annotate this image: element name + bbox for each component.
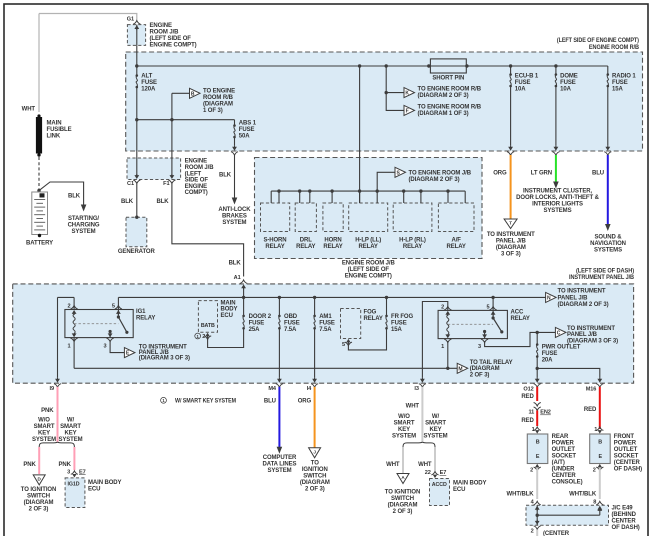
pin 3 IG1 — [107, 338, 114, 342]
svg-text:ENGINE COMPT): ENGINE COMPT) — [150, 43, 197, 49]
svg-text:POWER: POWER — [552, 441, 575, 447]
svg-text:(DIAGRAM 2 OF 3): (DIAGRAM 2 OF 3) — [558, 302, 609, 308]
svg-text:O12: O12 — [523, 387, 533, 393]
svg-text:BATTERY: BATTERY — [26, 241, 53, 247]
svg-text:M: M — [458, 366, 462, 372]
svg-text:BLK: BLK — [219, 173, 232, 179]
pin ECU-B out of R/B — [508, 147, 513, 151]
wire PNK to IG1D — [73, 447, 75, 470]
svg-text:ORG: ORG — [298, 399, 312, 405]
wire ECU-B fuse down — [510, 86, 512, 146]
wire WHT/BLK front — [599, 468, 601, 500]
ENGINE ROOM R/B box — [126, 52, 643, 151]
svg-text:B: B — [536, 440, 540, 446]
svg-text:FUSE: FUSE — [249, 321, 265, 327]
svg-text:BRAKES: BRAKES — [222, 214, 247, 220]
arrow to anti-lock brakes system — [232, 198, 238, 205]
wire ORG from I4 — [314, 387, 316, 448]
svg-text:FUSE: FUSE — [141, 80, 157, 86]
svg-text:SYSTEM: SYSTEM — [71, 229, 95, 235]
fuse ECU-B 1 10A — [509, 64, 512, 67]
engine room J/B label box (C1 F1) — [127, 158, 181, 180]
pin RADIO out of R/B — [605, 147, 610, 151]
svg-text:F: F — [406, 109, 409, 115]
svg-text:A/F: A/F — [452, 237, 462, 243]
wire WHT/BLK rear — [536, 468, 538, 500]
svg-text:1 OF 3): 1 OF 3) — [203, 108, 223, 114]
svg-text:2 OF 3): 2 OF 3) — [470, 373, 490, 379]
svg-text:T: T — [509, 221, 512, 226]
svg-text:(DIAGRAM: (DIAGRAM — [300, 480, 330, 486]
wire PWR fuse to O12 — [536, 357, 538, 378]
svg-text:120A: 120A — [141, 87, 156, 93]
coil ACC — [447, 315, 449, 335]
junction ACC pin5 rail — [491, 296, 494, 299]
circled 1 note smart key — [161, 397, 167, 403]
lower rail to M arrow — [74, 367, 457, 369]
svg-text:TO ENGINE: TO ENGINE — [203, 88, 235, 94]
wire LT GRN to instrument cluster — [555, 155, 557, 182]
wire down to ABS fuse — [234, 120, 236, 126]
svg-text:SYSTEM: SYSTEM — [392, 434, 416, 440]
pin 4 J/C E49 — [534, 501, 541, 505]
svg-text:MAIN: MAIN — [47, 121, 62, 127]
svg-text:7.5A: 7.5A — [284, 327, 297, 333]
svg-text:TO INSTRUMENT: TO INSTRUMENT — [567, 326, 615, 332]
svg-text:(DIAGRAM: (DIAGRAM — [388, 503, 418, 509]
svg-text:(UNDER: (UNDER — [552, 467, 575, 473]
svg-text:FUSE: FUSE — [284, 321, 300, 327]
svg-text:15A: 15A — [612, 87, 623, 93]
wire pin5 up — [117, 297, 119, 309]
arrow to sound and navigation — [605, 224, 611, 231]
svg-text:J/C E49: J/C E49 — [612, 506, 634, 512]
arrow F to engine room R/B — [404, 105, 415, 115]
wire rail to ACC pin5 — [492, 297, 494, 310]
svg-text:TO TAIL RELAY: TO TAIL RELAY — [470, 360, 513, 366]
svg-text:DRL: DRL — [300, 237, 312, 243]
svg-text:FUSE: FUSE — [319, 321, 335, 327]
svg-text:CHARGING: CHARGING — [68, 223, 100, 229]
svg-text:SYSTEM: SYSTEM — [222, 220, 246, 226]
svg-text:BLK: BLK — [68, 194, 81, 200]
svg-text:(DIAGRAM 1 OF 3): (DIAGRAM 1 OF 3) — [418, 111, 469, 117]
svg-text:SMART: SMART — [394, 421, 415, 427]
battery — [32, 192, 48, 235]
svg-text:INTERIOR LIGHTS: INTERIOR LIGHTS — [532, 202, 583, 208]
relay S-HORN — [261, 203, 290, 232]
svg-text:H-LP (RL): H-LP (RL) — [399, 237, 426, 243]
short pin — [430, 59, 466, 73]
svg-text:SYSTEM: SYSTEM — [423, 434, 447, 440]
svg-text:NAVIGATION: NAVIGATION — [590, 241, 626, 247]
svg-text:3: 3 — [478, 344, 481, 350]
svg-text:SMART: SMART — [60, 424, 81, 430]
pin 2 front socket — [598, 464, 602, 468]
fuse DOOR 2 25A — [243, 297, 245, 316]
svg-text:SMART: SMART — [34, 424, 55, 430]
rail IG1 pin2 to I9 riser — [58, 296, 75, 298]
connector F1 — [170, 175, 175, 179]
svg-text:MAIN BODY: MAIN BODY — [453, 481, 487, 487]
svg-text:E7: E7 — [79, 469, 86, 475]
svg-text:COMPUTER: COMPUTER — [263, 455, 297, 461]
svg-text:OF DASH): OF DASH) — [612, 525, 640, 531]
svg-text:C: C — [557, 331, 561, 337]
svg-text:I3: I3 — [414, 386, 418, 392]
wire bus to ALT fuse — [136, 66, 138, 76]
wire to B arrow — [172, 92, 190, 94]
svg-text:SWITCH: SWITCH — [391, 496, 414, 502]
svg-text:2: 2 — [531, 529, 534, 535]
wire IG1 pin3 to E arrow — [110, 341, 124, 353]
svg-text:3 OF 3): 3 OF 3) — [501, 251, 521, 257]
svg-text:7.5A: 7.5A — [319, 327, 332, 333]
pin 1 IG1 — [71, 338, 78, 342]
connector I3 — [420, 379, 425, 383]
svg-text:FR FOG: FR FOG — [391, 314, 413, 320]
svg-text:SWITCH: SWITCH — [27, 494, 50, 500]
pin BATB — [205, 333, 209, 337]
main body ECU (BATB) — [198, 301, 217, 333]
svg-text:K: K — [405, 91, 409, 97]
svg-text:FUSE: FUSE — [239, 127, 255, 133]
contact ACC top — [492, 316, 495, 319]
svg-text:BODY: BODY — [221, 307, 238, 313]
svg-text:FUSE: FUSE — [612, 80, 628, 86]
connector M4 — [277, 379, 282, 383]
svg-text:OUTLET: OUTLET — [552, 447, 576, 453]
wire F1 riser — [171, 93, 173, 175]
contact ACC pin3 — [483, 330, 486, 333]
svg-text:1: 1 — [67, 343, 70, 349]
svg-text:W/ SMART KEY SYSTEM: W/ SMART KEY SYSTEM — [175, 399, 236, 405]
wire WHT to ignition switch — [402, 447, 404, 473]
wire to K arrow — [386, 92, 404, 94]
svg-text:RELAY: RELAY — [323, 244, 342, 250]
svg-text:DATA LINES: DATA LINES — [263, 461, 297, 467]
wire IG1 pin1 to rail — [73, 338, 75, 369]
svg-text:CONSOLE): CONSOLE) — [552, 480, 583, 486]
wire ABS fuse to edge — [234, 137, 236, 146]
wire G1 to bus — [136, 25, 138, 66]
connector D to ignition switch — [33, 475, 45, 485]
junction generator — [135, 216, 138, 219]
svg-text:ROOM J/B: ROOM J/B — [185, 165, 215, 171]
connector M16 — [597, 379, 602, 383]
pin 2 IG1 — [71, 306, 78, 310]
svg-text:OBD: OBD — [284, 314, 298, 320]
connector A1 — [240, 280, 247, 284]
ENGINE ROOM J/B relay box — [255, 158, 483, 259]
relay HORN — [323, 203, 343, 232]
svg-text:FUSE: FUSE — [391, 321, 407, 327]
svg-text:SOCKET: SOCKET — [614, 454, 639, 460]
svg-text:(LEFT SIDE OF: (LEFT SIDE OF — [150, 36, 192, 42]
dashed wire fusible link to battery — [38, 157, 40, 191]
svg-text:BLK: BLK — [121, 199, 134, 205]
riser to I9 — [57, 297, 59, 377]
wire BLK to anti-lock brakes — [234, 155, 236, 198]
svg-text:3: 3 — [103, 343, 106, 349]
junction ABS branch — [135, 118, 138, 121]
svg-text:20A: 20A — [542, 358, 553, 364]
svg-text:PNK: PNK — [23, 462, 36, 468]
svg-text:SYSTEM: SYSTEM — [58, 437, 82, 443]
J/C E49 internal wires — [536, 505, 538, 515]
arrow to starting/charging system — [81, 205, 87, 212]
svg-text:PNK: PNK — [59, 462, 72, 468]
bus wire R/B — [137, 65, 608, 67]
wire center feed to relay box — [359, 66, 361, 203]
junction A1 rail — [242, 296, 245, 299]
svg-text:C1: C1 — [127, 181, 134, 187]
svg-text:ECU: ECU — [88, 487, 100, 493]
svg-text:ECU: ECU — [221, 313, 233, 319]
svg-text:A1: A1 — [234, 275, 241, 281]
svg-text:ABS 1: ABS 1 — [239, 121, 257, 127]
svg-text:INSTRUMENT PANEL J/B: INSTRUMENT PANEL J/B — [569, 275, 635, 281]
svg-text:OUTLET: OUTLET — [614, 447, 638, 453]
arrow M to tail relay — [457, 363, 468, 373]
svg-text:BLK: BLK — [156, 199, 169, 205]
svg-text:15A: 15A — [391, 327, 402, 333]
svg-text:(DIAGRAM 3 OF 3): (DIAGRAM 3 OF 3) — [567, 339, 618, 345]
svg-text:ENGINE ROOM R/B: ENGINE ROOM R/B — [589, 45, 640, 51]
arrow N to instrument panel J/B — [546, 292, 557, 302]
connector C1 — [134, 175, 139, 179]
wire ACC pin1 to lower rail — [447, 341, 449, 368]
svg-text:RED: RED — [521, 418, 534, 424]
svg-text:(LEFT SIDE OF: (LEFT SIDE OF — [348, 267, 390, 273]
wire PNK to ignition switch — [38, 447, 40, 474]
fuse FR FOG 15A — [385, 296, 388, 299]
svg-text:TO ENGINE ROOM R/B: TO ENGINE ROOM R/B — [418, 87, 482, 93]
svg-text:KEY: KEY — [398, 427, 410, 433]
fuse PWR OUTLET 20A — [536, 332, 538, 344]
svg-text:PNK: PNK — [41, 408, 54, 414]
svg-text:S-HORN: S-HORN — [263, 237, 286, 243]
S arrow branch — [377, 172, 395, 191]
svg-text:ENGINE: ENGINE — [150, 23, 173, 29]
svg-text:FRONT: FRONT — [614, 434, 635, 440]
svg-text:SMART: SMART — [425, 421, 446, 427]
svg-text:FUSE: FUSE — [515, 80, 531, 86]
svg-text:ANTI-LOCK: ANTI-LOCK — [218, 207, 251, 213]
generator box — [126, 217, 147, 247]
connector G1 — [133, 21, 140, 25]
svg-text:(DIAGRAM: (DIAGRAM — [24, 500, 54, 506]
svg-text:TO ENGINE ROOM J/B: TO ENGINE ROOM J/B — [409, 170, 472, 176]
svg-text:SOUND &: SOUND & — [595, 235, 623, 241]
svg-text:SIDE OF: SIDE OF — [185, 178, 209, 184]
svg-text:SYSTEM: SYSTEM — [32, 437, 56, 443]
wire ACC pin2 to I3 — [422, 302, 447, 378]
relay link IG1 — [74, 323, 118, 325]
pin 2 rear socket — [535, 464, 539, 468]
svg-text:BLK: BLK — [229, 261, 242, 267]
svg-text:8: 8 — [593, 499, 596, 505]
wire WHT to ACCD — [434, 447, 436, 471]
arrow to instrument cluster systems — [553, 182, 559, 189]
svg-text:2: 2 — [441, 304, 444, 310]
wire AM1 fuse to I4 — [314, 328, 316, 377]
svg-text:WHT: WHT — [406, 404, 420, 410]
svg-text:2: 2 — [530, 468, 533, 474]
svg-text:TO ENGINE ROOM R/B: TO ENGINE ROOM R/B — [418, 104, 482, 110]
arrow to computer data lines — [277, 447, 283, 454]
svg-text:I9: I9 — [50, 386, 54, 392]
svg-text:LINK: LINK — [47, 134, 61, 140]
pin5 stub — [117, 310, 119, 318]
svg-text:FUSE: FUSE — [542, 351, 558, 357]
svg-text:FUSE: FUSE — [560, 80, 576, 86]
connector T to instrument panel J/B — [504, 219, 517, 229]
junction ACC pin1 rail — [446, 367, 449, 370]
svg-text:(LEFT: (LEFT — [185, 171, 202, 177]
connector I9 — [55, 379, 60, 383]
switch arm ACC — [493, 318, 502, 332]
svg-text:PANEL J/B: PANEL J/B — [558, 295, 589, 301]
fuse RADIO 1 15A — [607, 66, 609, 75]
wire RED from M16 — [599, 387, 601, 429]
switch arm IG1 — [118, 317, 127, 332]
main body ECU box IG1D — [65, 478, 85, 508]
svg-text:RED: RED — [521, 394, 534, 400]
svg-text:ENGINE COMPT): ENGINE COMPT) — [345, 273, 392, 279]
svg-text:W/O: W/O — [38, 418, 50, 424]
svg-text:IG1D: IG1D — [68, 482, 80, 488]
svg-text:N: N — [547, 296, 551, 302]
connector O12 — [535, 379, 540, 383]
split brace I3 — [403, 442, 435, 448]
svg-text:3: 3 — [67, 469, 70, 475]
svg-text:DOME: DOME — [560, 74, 578, 80]
main rail instrument panel J/B — [118, 296, 545, 298]
pin 5 ACC — [490, 306, 497, 310]
svg-text:WHT/BLK: WHT/BLK — [507, 492, 535, 498]
svg-text:W/: W/ — [432, 414, 440, 420]
svg-text:PANEL J/B: PANEL J/B — [567, 332, 598, 338]
wire J/C E49 down — [536, 515, 538, 525]
svg-text:IGNITION: IGNITION — [302, 467, 328, 473]
svg-text:25A: 25A — [249, 327, 260, 333]
svg-text:BLU: BLU — [592, 171, 604, 177]
svg-text:H-LP (LL): H-LP (LL) — [355, 237, 381, 243]
svg-text:MAIN: MAIN — [221, 300, 236, 306]
svg-text:1: 1 — [441, 344, 444, 350]
fuse ABS 1 50A — [233, 124, 236, 127]
svg-text:11: 11 — [528, 410, 534, 416]
svg-text:2: 2 — [593, 468, 596, 474]
wire DOME fuse down — [555, 86, 557, 146]
svg-text:BLU: BLU — [264, 399, 276, 405]
connector EN2 — [534, 403, 541, 407]
rear power outlet socket box — [527, 434, 548, 464]
svg-text:2: 2 — [202, 334, 205, 340]
bus wire relay box — [271, 190, 465, 192]
svg-text:ECU: ECU — [453, 487, 465, 493]
wire RADIO fuse down — [607, 86, 609, 146]
wire pin2 up — [73, 297, 75, 309]
svg-text:ENGINE: ENGINE — [185, 159, 208, 165]
svg-text:(CENTER: (CENTER — [614, 460, 641, 466]
contact IG1 arm end — [125, 331, 128, 334]
junction battery positive — [37, 189, 40, 192]
svg-text:(BEHIND: (BEHIND — [612, 512, 637, 518]
svg-text:PWR OUTLET: PWR OUTLET — [542, 345, 581, 351]
svg-text:50A: 50A — [239, 134, 250, 140]
J/C E49 box — [526, 505, 609, 525]
svg-text:TO IGNITION: TO IGNITION — [385, 490, 420, 496]
pin 1 front socket — [596, 427, 603, 431]
svg-text:2: 2 — [67, 304, 70, 310]
svg-text:M16: M16 — [586, 387, 597, 393]
svg-text:ENGINE: ENGINE — [185, 184, 208, 190]
svg-text:SOCKET: SOCKET — [552, 454, 577, 460]
svg-text:E: E — [598, 454, 602, 460]
svg-text:KEY: KEY — [429, 427, 441, 433]
svg-text:E: E — [536, 454, 540, 460]
wire RED to rear socket — [536, 411, 538, 427]
wire WHT down to fusible link — [38, 14, 40, 113]
svg-text:B: B — [191, 91, 195, 97]
svg-text:SYSTEMS: SYSTEMS — [544, 208, 572, 214]
svg-text:COMPT): COMPT) — [185, 190, 208, 196]
svg-text:INSTRUMENT CLUSTER,: INSTRUMENT CLUSTER, — [523, 189, 593, 195]
pin3 stub ACC — [484, 332, 486, 339]
node K/F branch — [385, 64, 388, 67]
junction F1 branch — [170, 118, 173, 121]
relay link ACC — [448, 323, 493, 325]
wire to M16 — [537, 368, 600, 377]
svg-text:POWER: POWER — [614, 441, 637, 447]
svg-text:22: 22 — [425, 470, 431, 476]
arrow E to instrument panel J/B — [124, 348, 134, 358]
svg-text:(LEFT SIDE OF ENGINE COMPT): (LEFT SIDE OF ENGINE COMPT) — [557, 38, 639, 44]
svg-text:TO IGNITION: TO IGNITION — [21, 487, 56, 493]
pin 1 rear socket — [534, 427, 541, 431]
svg-text:TO INSTRUMENT: TO INSTRUMENT — [487, 232, 535, 238]
svg-text:RELAY: RELAY — [136, 316, 155, 322]
svg-text:CENTER: CENTER — [552, 473, 577, 479]
contact IG1 top — [117, 315, 120, 318]
svg-text:ECU-B 1: ECU-B 1 — [515, 74, 539, 80]
wire PNK from I9 — [57, 387, 59, 442]
svg-text:ACCD: ACCD — [432, 482, 447, 488]
pin 5 FOG relay — [346, 339, 350, 343]
svg-text:GENERATOR: GENERATOR — [118, 249, 156, 255]
svg-text:IG1: IG1 — [136, 309, 146, 315]
junction ALT — [135, 64, 138, 67]
pin 8 J/C E49 — [596, 501, 603, 505]
fuse OBD 7.5A — [278, 296, 281, 299]
svg-text:SHORT PIN: SHORT PIN — [432, 76, 464, 82]
svg-text:G1: G1 — [127, 17, 134, 23]
arrow S to engine room J/B — [395, 167, 406, 177]
svg-text:RELAY: RELAY — [511, 316, 530, 322]
pin DOME out of R/B — [554, 147, 559, 151]
svg-text:(DIAGRAM 2 OF 3): (DIAGRAM 2 OF 3) — [418, 93, 469, 99]
svg-text:DOOR LOCKS, ANTI-THEFT &: DOOR LOCKS, ANTI-THEFT & — [516, 195, 599, 201]
svg-text:RELAY: RELAY — [296, 244, 315, 250]
svg-text:RELAY: RELAY — [447, 244, 466, 250]
svg-text:MAIN BODY: MAIN BODY — [88, 480, 122, 486]
wire WHT from I3 — [421, 387, 423, 442]
svg-text:RADIO 1: RADIO 1 — [612, 74, 636, 80]
wire FOG relay to FR FOG fuse — [348, 328, 386, 350]
junction PWR outlet fuse — [536, 331, 539, 334]
